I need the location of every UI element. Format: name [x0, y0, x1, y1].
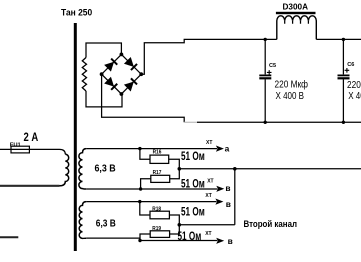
capacitor C6 plates [338, 74, 350, 76]
svg-text:а: а [225, 144, 230, 154]
capacitor C5 leads [264, 39, 266, 122]
wire: bridge minus output down and right [102, 74, 185, 122]
node: R19 tap junction [138, 239, 141, 242]
svg-text:в: в [228, 236, 233, 246]
svg-text:51 Ом: 51 Ом [178, 231, 202, 243]
bridge rectifier diamond wires [102, 54, 142, 94]
wire: HV winding top to bridge top vertex [86, 43, 121, 58]
svg-text:Тан 250: Тан 250 [61, 8, 92, 19]
svg-text:D300A: D300A [283, 2, 309, 12]
node: bridge right vertex [139, 72, 143, 76]
wire: minus rail to right edge [197, 121, 361, 123]
primary winding W1 [60, 154, 69, 186]
wire: W4 bottom to arrow v [86, 238, 217, 240]
capacitor C5 plus sign [267, 70, 272, 75]
wire: W3 bottom to arrow v [86, 188, 217, 190]
node: channel1 mid junction [178, 167, 182, 171]
svg-text:51 Ом: 51 Ом [181, 207, 205, 219]
svg-text:R16: R16 [153, 150, 162, 156]
node: C5 top junction [264, 38, 267, 41]
transformer core [74, 23, 77, 251]
capacitor C6 plus sign [345, 68, 350, 73]
svg-text:ХТ: ХТ [205, 231, 211, 237]
svg-text:Х 400 В: Х 400 В [348, 90, 361, 102]
resistor R18 leads [140, 202, 150, 215]
svg-text:ХТ: ХТ [207, 179, 213, 185]
terminal arrow XT-v row2 [216, 186, 224, 192]
svg-text:51 Ом: 51 Ом [181, 178, 205, 190]
svg-text:C5: C5 [269, 63, 276, 69]
wire: mains input bottom [0, 185, 60, 187]
capacitor C6 leads [342, 39, 344, 122]
choke L1 winding [277, 16, 316, 40]
node: channel2 mid junction [178, 223, 182, 227]
resistor R16 body [150, 155, 169, 163]
wire: mains input top through fuse to primary [0, 149, 65, 154]
node: second channel tie junction [233, 167, 237, 171]
resistor R18 body [150, 211, 169, 219]
resistor R16 leads [140, 149, 150, 160]
svg-text:6,3 В: 6,3 В [95, 164, 116, 175]
node: R16 tap junction [138, 147, 141, 150]
resistor R19 body [150, 231, 169, 238]
wire: channel2 mid to tie [179, 224, 235, 226]
diode VD2 (top-right, points to right vertex) [124, 57, 137, 70]
node: C5 bottom junction [264, 121, 267, 124]
svg-text:ХТ: ХТ [205, 193, 211, 199]
svg-text:Х 400 В: Х 400 В [276, 90, 305, 102]
svg-text:R19: R19 [152, 226, 161, 232]
svg-text:R18: R18 [152, 206, 161, 212]
node: C6 bottom junction [342, 121, 345, 124]
resistor R19 leads [140, 234, 150, 241]
wire: channel output to right edge [179, 168, 361, 170]
wire: W3 top to arrow a [86, 148, 217, 150]
svg-text:R17: R17 [153, 170, 162, 176]
wire: stray mains stub bottom left [0, 236, 18, 238]
svg-text:Второй канал: Второй канал [244, 219, 298, 229]
terminal arrow XT-v row4 [216, 238, 224, 244]
node: bridge left vertex [100, 72, 104, 76]
wire: HV winding bottom to bridge bottom vertex [86, 91, 122, 107]
capacitor C5 plates [259, 74, 271, 76]
resistor R17 leads [141, 179, 151, 189]
svg-text:2 А: 2 А [24, 130, 39, 144]
wire: W4 top to arrow v [86, 201, 216, 203]
svg-text:C6: C6 [347, 62, 354, 68]
terminal arrow XT-v row3 [215, 199, 223, 205]
node: bridge bottom vertex [120, 92, 124, 96]
svg-text:220 Мкф: 220 Мкф [275, 79, 309, 91]
wire: minus rail faint piece [184, 121, 197, 123]
choke L1 winding tails [285, 21, 309, 24]
node: R18 tap junction [138, 200, 141, 203]
secondary winding W3 (6,3 В top) [79, 149, 86, 189]
svg-text:51 Ом: 51 Ом [181, 151, 205, 163]
svg-text:6,3 В: 6,3 В [96, 218, 116, 229]
node: bridge top vertex [120, 53, 124, 57]
secondary winding W4 (6,3 В bottom) [79, 202, 86, 239]
diode VD1 (top-left, points to top vertex) [104, 58, 117, 71]
diode VD3 (bottom-left, points to bottom vertex) [104, 77, 117, 90]
terminal arrow XT-a [216, 146, 224, 152]
node: C6 top junction [342, 38, 345, 41]
HV winding W2 (to bridge) zigzag [82, 58, 86, 92]
choke L1 core bar [276, 12, 316, 14]
resistor R17 body [151, 175, 170, 182]
wire: bridge plus output up and right [141, 39, 277, 74]
wire: tie down to channel2 [234, 169, 236, 225]
svg-text:в: в [226, 199, 231, 209]
svg-text:ХТ: ХТ [206, 140, 212, 146]
fuse FU1 body [11, 146, 29, 153]
node: R17 tap junction [139, 187, 142, 190]
svg-text:в: в [225, 183, 230, 193]
diode VD4 (bottom-right, points to right vertex) [124, 78, 137, 91]
wire: after choke to right edge [316, 38, 361, 40]
